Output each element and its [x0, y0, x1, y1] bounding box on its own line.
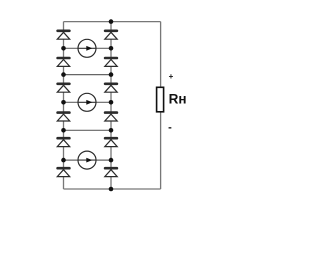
- diode D2 left: [56, 57, 70, 67]
- diode D5 left: [56, 137, 70, 147]
- node right rail bottom: [109, 187, 114, 192]
- wire current-source row 3: [64, 159, 112, 161]
- node right rail row 1: [109, 46, 114, 51]
- wire left rail: [63, 22, 65, 189]
- node right rail row 2: [109, 72, 114, 77]
- node left rail row 1: [61, 46, 66, 51]
- wire outer right rail (load branch): [160, 22, 162, 189]
- wire inner right rail: [110, 22, 112, 189]
- svg-text:Rн: Rн: [169, 92, 187, 107]
- diode D6 left: [56, 167, 70, 177]
- node left rail row 2: [61, 72, 66, 77]
- current source I1: [78, 39, 96, 57]
- wire cell link row 1: [64, 74, 112, 76]
- node right rail top: [109, 19, 114, 24]
- resistor RH: [157, 87, 164, 112]
- wire cell link row 2: [64, 129, 112, 131]
- diode D8 right: [104, 57, 118, 67]
- node right rail row 3: [109, 100, 114, 105]
- current source I3: [78, 151, 96, 169]
- diode D1 left: [56, 30, 70, 40]
- current source I2: [78, 93, 96, 111]
- diode D12 right: [104, 167, 118, 177]
- diode D10 right: [104, 111, 118, 121]
- node left rail row 3: [61, 100, 66, 105]
- wire current-source row 1: [64, 47, 112, 49]
- diode D9 right: [104, 83, 118, 93]
- node left rail row 5: [61, 158, 66, 163]
- diode D11 right: [104, 137, 118, 147]
- diode D4 left: [56, 111, 70, 121]
- svg-text:-: -: [168, 122, 172, 134]
- diode D3 left: [56, 83, 70, 93]
- wire bottom bus: [64, 188, 161, 190]
- svg-text:+: +: [169, 72, 174, 81]
- node left rail row 4: [61, 128, 66, 133]
- node right rail row 4: [109, 128, 114, 133]
- wire current-source row 2: [64, 101, 112, 103]
- node right rail row 5: [109, 158, 114, 163]
- diode D7 right: [104, 30, 118, 40]
- wire top bus: [64, 21, 161, 23]
